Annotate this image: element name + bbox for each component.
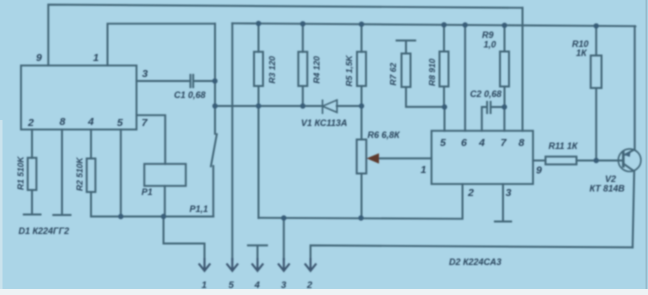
wire R6 wiper line to pin1 of D2 xyxy=(378,157,432,159)
svg-text:R11 1К: R11 1К xyxy=(549,141,579,151)
wire top rail from pin9 of D1 to pin8 drop of D2 xyxy=(48,5,522,66)
resistor R8 xyxy=(443,25,445,52)
switch P1,1 top wire xyxy=(214,106,216,134)
wire R11 to base xyxy=(577,160,624,162)
wire pin8 drop of D2 xyxy=(522,8,524,131)
svg-text:C1 0,68: C1 0,68 xyxy=(174,90,206,100)
transistor V2 emitter arrowhead xyxy=(624,152,630,158)
wire pin3 line left of C1 xyxy=(137,80,190,82)
svg-text:R8 910: R8 910 xyxy=(427,58,437,86)
svg-text:V2: V2 xyxy=(605,174,616,184)
svg-text:1: 1 xyxy=(202,280,207,291)
svg-text:R6 6,8К: R6 6,8К xyxy=(368,130,402,140)
svg-text:P1: P1 xyxy=(142,187,153,197)
resistor R11 xyxy=(546,157,577,165)
svg-text:1,0: 1,0 xyxy=(484,40,497,50)
svg-text:R4 120: R4 120 xyxy=(312,56,322,84)
wire R1 bottom terminal bar xyxy=(24,190,41,215)
svg-text:C2 0,68: C2 0,68 xyxy=(470,89,502,99)
potentiometer R6 wiper arrow xyxy=(367,153,380,163)
svg-text:D1 К224ГГ2: D1 К224ГГ2 xyxy=(19,226,70,236)
svg-text:1: 1 xyxy=(421,164,427,176)
wire middle line y106 left part xyxy=(215,105,322,107)
wire pin5 drop of D2 xyxy=(444,107,446,131)
wire bottom line 2 (to pin2 of D2) xyxy=(259,184,463,219)
resistor R10 xyxy=(595,26,597,56)
svg-text:1К: 1К xyxy=(576,48,588,58)
diode V1 xyxy=(323,100,338,113)
resistor R7 with top bar xyxy=(397,41,416,54)
left scan edge faint strip xyxy=(0,120,3,290)
svg-text:3: 3 xyxy=(142,68,148,80)
resistor R2 xyxy=(87,159,96,193)
svg-text:6: 6 xyxy=(461,137,467,149)
wire arrow4 terminal bar xyxy=(248,245,267,259)
svg-text:V1 КС113А: V1 КС113А xyxy=(301,118,347,128)
switch P1,1 blade xyxy=(211,134,217,166)
svg-text:R3 120: R3 120 xyxy=(267,56,277,84)
relay P1 box xyxy=(144,164,186,186)
right scan edge line xyxy=(646,0,648,290)
svg-text:2: 2 xyxy=(467,187,474,199)
wire bottom bus to arrow 2 xyxy=(311,245,633,259)
svg-text:4: 4 xyxy=(478,137,485,149)
wire pin4 of D1 to R2 xyxy=(90,130,92,159)
wire middle line y106 right part xyxy=(337,105,362,107)
wire pin7 of D1 to relay xyxy=(137,115,166,164)
capacitor C2 with pin4 drop xyxy=(482,107,505,131)
capacitor C1 xyxy=(190,75,193,87)
potentiometer R6 body xyxy=(361,106,363,140)
transistor V2 collector xyxy=(624,26,635,155)
svg-text:5: 5 xyxy=(440,137,446,149)
wire second rail left segment (pin1 D1 to C1 junction) xyxy=(108,24,216,66)
svg-text:8: 8 xyxy=(60,116,66,128)
svg-text:2: 2 xyxy=(27,117,34,129)
wire arrow3 drop xyxy=(283,218,285,260)
svg-text:2: 2 xyxy=(306,280,313,291)
resistor R5 xyxy=(361,24,363,52)
IC D2 box xyxy=(432,131,534,184)
resistor R9 xyxy=(504,25,506,51)
svg-text:R2 510K: R2 510K xyxy=(75,157,85,191)
svg-text:8: 8 xyxy=(519,137,525,149)
svg-text:1: 1 xyxy=(93,52,99,64)
wire pin6 drop of D2 xyxy=(464,25,466,131)
svg-text:R1 510K: R1 510K xyxy=(16,156,26,190)
wire pin5 of D1 drop xyxy=(120,130,122,217)
wire pin2 of D1 to R1 xyxy=(31,130,33,158)
wire pin3 of D2 with end bar xyxy=(495,184,511,222)
wire relay bottom to left bus xyxy=(164,186,166,217)
transistor V2 emitter xyxy=(624,164,634,247)
svg-text:КТ 814В: КТ 814В xyxy=(590,184,626,194)
svg-text:3: 3 xyxy=(281,280,287,291)
bottom scan strip xyxy=(0,289,648,295)
svg-text:4: 4 xyxy=(254,280,261,291)
svg-text:R5 1,5K: R5 1,5K xyxy=(344,54,354,86)
wire pin9 of D2 to R11 xyxy=(533,160,546,162)
IC D1 box xyxy=(21,66,137,130)
switch P1,1 bottom wire xyxy=(212,166,214,217)
svg-text:R9: R9 xyxy=(482,30,494,40)
svg-text:4: 4 xyxy=(87,116,94,128)
wire relay junction down to arrow 1 xyxy=(164,217,205,260)
resistor R1 xyxy=(28,158,37,190)
svg-text:9: 9 xyxy=(36,52,42,64)
connector arrows 1 5 4 3 2 xyxy=(199,258,317,271)
wire left bus xyxy=(91,216,213,218)
wire second rail right segment xyxy=(232,23,635,26)
svg-text:P1,1: P1,1 xyxy=(190,204,209,214)
svg-text:5: 5 xyxy=(229,280,235,291)
svg-text:R7 62: R7 62 xyxy=(388,63,398,86)
resistor R3 xyxy=(258,24,260,52)
svg-text:5: 5 xyxy=(117,117,123,129)
wire pin7 drop of D2 xyxy=(503,107,505,131)
svg-text:3: 3 xyxy=(506,187,512,199)
resistor R4 xyxy=(302,24,304,52)
wire C1 vertical x215 xyxy=(214,24,216,106)
wire R2 to left bus xyxy=(90,192,92,217)
transistor V2 circle xyxy=(618,149,641,172)
wire C1 right lead xyxy=(194,80,215,82)
wire R3 down to bottom line xyxy=(258,106,260,218)
transistor V2 base bar xyxy=(622,152,625,167)
svg-text:D2 К224СА3: D2 К224СА3 xyxy=(449,257,501,267)
svg-text:9: 9 xyxy=(536,165,542,177)
wire pin8 of D1 with end bar xyxy=(53,130,70,216)
wire arrow5 vertical from rail xyxy=(231,23,233,259)
